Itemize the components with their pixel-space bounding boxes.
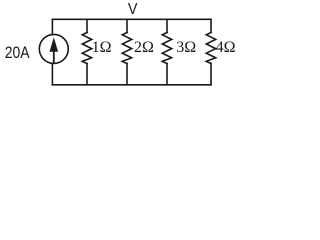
wire R3 top lead (166, 19, 168, 32)
wire R2 bottom lead (126, 64, 128, 85)
resistor R3 zigzag (162, 33, 171, 64)
current source I1 arrow head (50, 37, 59, 52)
svg-text:V: V (128, 1, 138, 18)
wire R2 top lead (126, 19, 128, 32)
current source I1 circle (39, 34, 68, 63)
wire R1 top lead (86, 19, 88, 32)
wire R3 bottom lead (166, 64, 168, 85)
svg-text:1Ω: 1Ω (92, 39, 112, 56)
resistor R4 zigzag (206, 33, 215, 64)
wire R1 bottom lead (86, 64, 88, 85)
svg-text:3Ω: 3Ω (176, 39, 196, 56)
resistor R2 zigzag (122, 33, 131, 64)
wire top (52, 18, 211, 20)
svg-text:20A: 20A (5, 44, 30, 62)
current source I1 arrow shaft (53, 50, 55, 63)
wire R4 top lead (210, 19, 212, 32)
wire left-top lead (51, 19, 53, 34)
wire R4 bottom lead (210, 64, 212, 85)
resistor R1 zigzag (82, 33, 91, 64)
wire bottom (52, 84, 211, 86)
svg-text:4Ω: 4Ω (216, 39, 236, 56)
wire left-bottom lead (51, 63, 53, 84)
svg-text:2Ω: 2Ω (134, 39, 154, 56)
